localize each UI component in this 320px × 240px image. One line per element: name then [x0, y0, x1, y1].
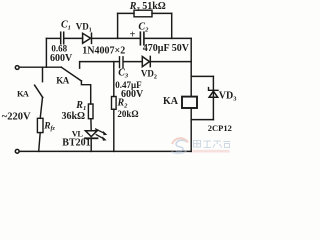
- watermark underline: [193, 150, 230, 153]
- switch KA2 blade: [61, 67, 81, 81]
- wire: R3 top rail right: [152, 12, 172, 14]
- svg-text:0.68: 0.68: [51, 43, 67, 53]
- terminal top-left: [15, 66, 19, 70]
- svg-text:600V: 600V: [121, 89, 144, 100]
- capacitor C1 0.68uF 600V: [61, 32, 64, 44]
- wire: bottom rail: [19, 150, 191, 152]
- wire: top rail C2 to right bus corner: [145, 37, 192, 39]
- svg-text:~220V: ~220V: [2, 112, 31, 123]
- svg-text:KA: KA: [17, 89, 30, 99]
- svg-text:R351kΩ: R351kΩ: [129, 1, 166, 13]
- wire: mid rail VD2 to right bus: [151, 61, 191, 63]
- switch KA1 blade: [35, 85, 43, 97]
- wire: bus from jog bottom to bottom rail: [190, 120, 192, 152]
- watermark text (CJK-like marks): [194, 141, 231, 148]
- wire: R3 left leg: [117, 13, 119, 38]
- LED VL BT201 (points down): [85, 131, 97, 137]
- capacitor C3 0.47uF 600V: [120, 57, 124, 68]
- resistor R1 36k box: [88, 104, 93, 119]
- wire: R3 top rail left: [118, 12, 134, 14]
- wire: VD3 branch vertical: [212, 76, 214, 119]
- resistor R2 20k box: [112, 97, 117, 110]
- wire: R1 to LED VL: [90, 119, 92, 131]
- resistor Rfz box: [37, 118, 43, 132]
- terminal bottom-left: [15, 149, 19, 153]
- watermark logo circle: [172, 138, 189, 153]
- svg-text:20kΩ: 20kΩ: [117, 109, 138, 119]
- svg-text:2CP12: 2CP12: [208, 123, 232, 133]
- wire: right bus down to relay KA box: [190, 38, 192, 96]
- relay coil KA box: [182, 97, 197, 108]
- resistor R3 51k box: [134, 10, 152, 17]
- wire: top rail VD1 to C2: [92, 37, 140, 39]
- wire: mid rail C3 to VD2: [124, 61, 143, 63]
- svg-text:+: +: [130, 30, 136, 41]
- svg-text:470μF 50V: 470μF 50V: [143, 43, 190, 54]
- wire: KA1 down to Rfz: [40, 97, 42, 118]
- wire: jog top to VD3 branch: [191, 75, 213, 77]
- wire: KA2 elbow down-right-down to R1: [81, 81, 90, 104]
- svg-text:1N4007×2: 1N4007×2: [82, 46, 125, 57]
- switch KA1 stub: [42, 67, 44, 82]
- diode VD1 1N4007: [83, 33, 91, 43]
- wire: top rail C1 to VD1: [64, 37, 82, 39]
- wire: R2 to bottom rail: [113, 109, 115, 151]
- capacitor C2 470uF 50V electrolytic: [140, 32, 144, 45]
- svg-text:600V: 600V: [50, 53, 73, 64]
- wire: LED to bottom rail: [90, 138, 92, 151]
- wire: top rail left segment to C1: [46, 37, 60, 39]
- wire: below relay box to bottom jog: [190, 108, 192, 120]
- wire: jog bottom from bus to VD3 branch: [191, 119, 213, 121]
- diode VD2 1N4007: [142, 57, 149, 67]
- wire: top-left terminal to switch KA2 blade start: [19, 66, 61, 68]
- wire: Rfz to bottom rail: [39, 133, 41, 152]
- wire: R3 right leg: [171, 13, 173, 38]
- svg-text:KA: KA: [163, 96, 179, 107]
- svg-text:36kΩ: 36kΩ: [62, 111, 86, 122]
- svg-text:BT201: BT201: [62, 138, 90, 149]
- wire: mid rail corner and stub (KA2 fixed contact): [80, 62, 119, 69]
- wire: riser from input wire up to top rail: [45, 38, 47, 67]
- diode VD3 2CP12 (points up): [209, 91, 218, 97]
- svg-text:KA: KA: [56, 76, 70, 86]
- wire: R2 branch from mid rail: [113, 62, 115, 97]
- LED light arrows: [96, 129, 108, 141]
